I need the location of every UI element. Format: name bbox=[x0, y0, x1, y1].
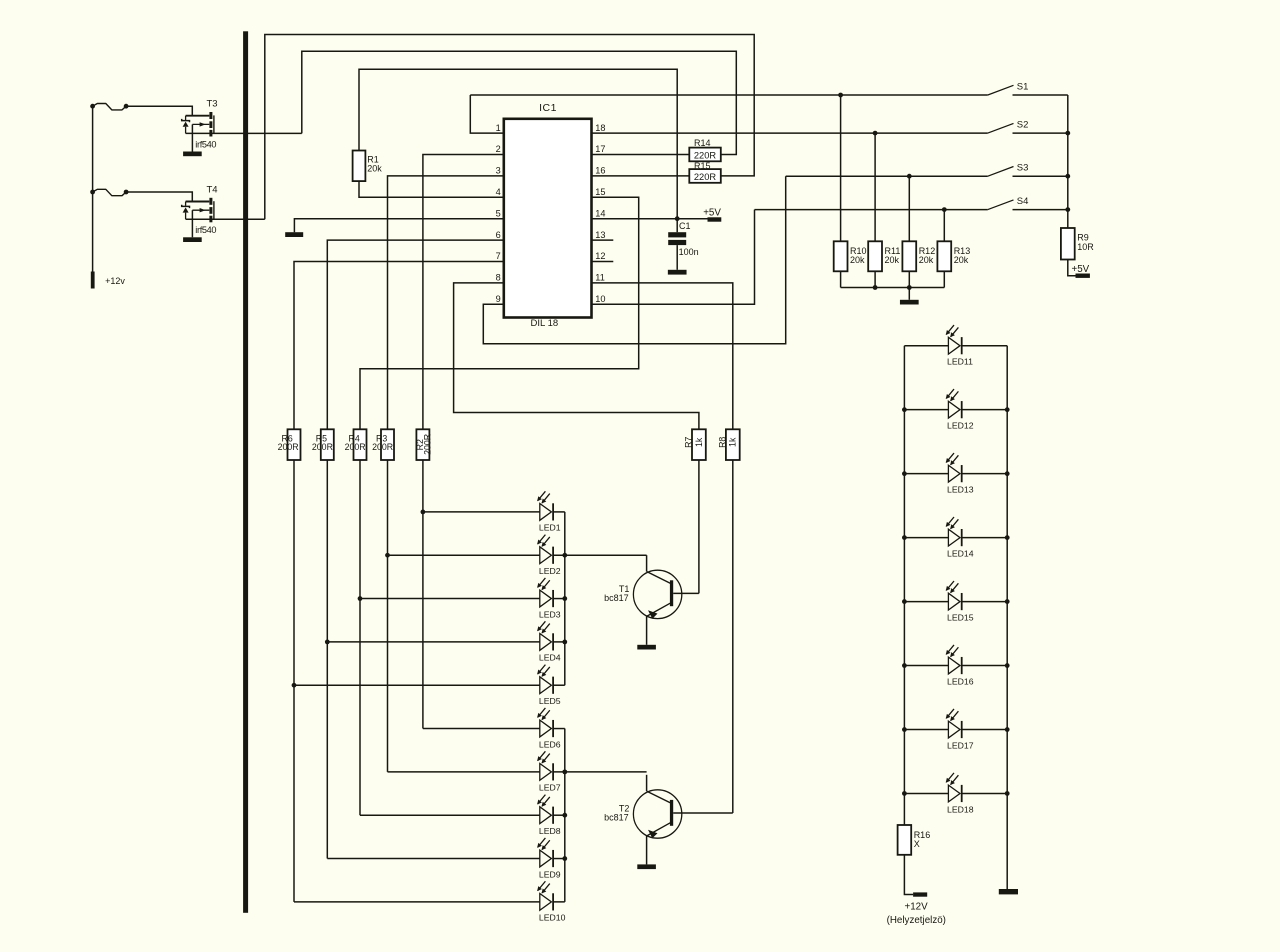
resistor R14 bbox=[689, 148, 721, 162]
svg-text:9: 9 bbox=[496, 294, 501, 304]
wire S4 to right rail bbox=[1013, 209, 1068, 211]
svg-text:IC1: IC1 bbox=[539, 102, 557, 114]
ground (T2 emitter) bbox=[637, 864, 656, 869]
junction (R13 tap on switch line) bbox=[942, 207, 947, 212]
svg-text:R15: R15 bbox=[694, 161, 711, 171]
junction (pin 14 / C1) bbox=[675, 216, 680, 221]
svg-text:7: 7 bbox=[496, 251, 501, 261]
ground (R10-R13) bbox=[900, 300, 919, 305]
wire T4 gate squiggle bbox=[93, 189, 127, 195]
junction (R11 ground rail) bbox=[873, 285, 878, 290]
svg-text:20k: 20k bbox=[954, 255, 969, 265]
svg-text:20k: 20k bbox=[919, 255, 934, 265]
resistor R5 bbox=[321, 429, 334, 460]
resistor R6 bbox=[288, 429, 301, 460]
LED LED11 bbox=[946, 325, 962, 354]
junction (S2 rail) bbox=[1065, 131, 1070, 136]
resistor R8 bbox=[726, 429, 740, 460]
wire LED6 cathode bbox=[553, 728, 565, 730]
resistor R11 bbox=[868, 241, 882, 271]
wire LED16 anode bbox=[904, 665, 948, 667]
svg-text:LED4: LED4 bbox=[539, 653, 561, 663]
wire pin 5 to ground bbox=[294, 219, 503, 233]
wire R1 top to +5V node bbox=[359, 69, 677, 218]
svg-text:12: 12 bbox=[595, 251, 605, 261]
wire T3 gate squiggle bbox=[93, 104, 127, 110]
svg-text:3: 3 bbox=[496, 166, 501, 176]
wire LED6-LED10 chain bbox=[564, 729, 566, 902]
svg-text:2: 2 bbox=[496, 144, 501, 154]
svg-text:DIL 18: DIL 18 bbox=[531, 318, 559, 329]
transistor T2 (bc817) bbox=[633, 790, 681, 839]
IC U1 (IC1 DIL 18) bbox=[504, 119, 592, 318]
wire LED11 cathode bbox=[962, 345, 1008, 347]
junction (R6 to LED5) bbox=[292, 683, 297, 688]
wire T2 base bbox=[673, 812, 733, 814]
LED LED7 bbox=[537, 751, 553, 780]
junction (R11 tap on switch line) bbox=[873, 131, 878, 136]
wire LED13 anode bbox=[904, 473, 948, 475]
wire pin 7 to R6 bbox=[294, 262, 504, 430]
junction (chain LED7) bbox=[562, 769, 567, 774]
resistor R12 bbox=[902, 241, 916, 271]
svg-text:LED1: LED1 bbox=[539, 523, 561, 533]
svg-text:bc817: bc817 bbox=[604, 593, 629, 603]
LED LED17 bbox=[946, 709, 962, 738]
transistor T4 (irf540) bbox=[182, 198, 214, 223]
wire T4 gate bbox=[126, 192, 192, 201]
LED LED6 bbox=[537, 708, 553, 737]
wire S4 line bbox=[755, 209, 988, 211]
wire T4 source to ground bbox=[191, 210, 193, 237]
svg-text:R7: R7 bbox=[683, 437, 693, 448]
junction (S3 rail) bbox=[1065, 174, 1070, 179]
wire LED2 cathode to T1 collector bbox=[553, 554, 647, 556]
svg-text:S2: S2 bbox=[1017, 119, 1029, 130]
wire R16 bottom to +12V bbox=[904, 855, 913, 895]
LED LED9 bbox=[537, 838, 553, 867]
wire LED1 cathode bbox=[553, 511, 565, 513]
svg-text:LED14: LED14 bbox=[947, 548, 974, 558]
wire T3 gate bbox=[126, 106, 192, 115]
junction (chain LED3) bbox=[562, 596, 567, 601]
resistor R3 bbox=[381, 429, 394, 460]
wire S2 line bbox=[987, 132, 989, 134]
wire pin 10 to S4 line bbox=[592, 210, 755, 305]
svg-text:200R: 200R bbox=[422, 434, 432, 455]
ground (C1) bbox=[668, 270, 687, 275]
wire LED5 cathode bbox=[553, 684, 565, 686]
svg-text:1: 1 bbox=[496, 123, 501, 133]
svg-text:LED8: LED8 bbox=[539, 826, 561, 836]
wire switch output rail bbox=[1067, 95, 1069, 228]
junction (left rail LED16) bbox=[902, 663, 907, 668]
ground (ladder right rail) bbox=[999, 889, 1018, 894]
switch S1 lever bbox=[988, 85, 1014, 95]
svg-text:200R: 200R bbox=[372, 442, 393, 452]
svg-text:LED15: LED15 bbox=[947, 612, 974, 622]
svg-text:220R: 220R bbox=[694, 150, 717, 160]
LED LED15 bbox=[946, 581, 962, 610]
svg-text:5: 5 bbox=[496, 208, 501, 218]
svg-text:15: 15 bbox=[595, 187, 605, 197]
resistor R9 bbox=[1061, 228, 1075, 260]
svg-text:1k: 1k bbox=[728, 437, 738, 447]
svg-text:200R: 200R bbox=[278, 442, 299, 452]
wire pin 9 to S3 line bbox=[483, 176, 785, 344]
wire LED9 cathode bbox=[553, 858, 565, 860]
svg-text:LED13: LED13 bbox=[947, 484, 974, 494]
wire R8 to T2 base bbox=[732, 460, 734, 813]
svg-text:+5V: +5V bbox=[1072, 264, 1090, 275]
ground (T3 source) bbox=[183, 152, 202, 157]
svg-text:11: 11 bbox=[595, 273, 605, 283]
svg-text:bc817: bc817 bbox=[604, 813, 629, 823]
LED LED18 bbox=[946, 773, 962, 802]
wire LED13 cathode bbox=[962, 473, 1008, 475]
connector +12v pin bbox=[91, 272, 95, 289]
wire pin 12 stub bbox=[592, 261, 614, 263]
junction (R5 to LED4) bbox=[325, 639, 330, 644]
resistor R13 bbox=[937, 241, 951, 271]
wire LED4 cathode bbox=[553, 641, 565, 643]
LED LED3 bbox=[537, 578, 553, 607]
svg-text:LED16: LED16 bbox=[947, 676, 974, 686]
junction (right rail LED17) bbox=[1005, 727, 1010, 732]
transistor T1 (bc817) bbox=[633, 570, 681, 619]
svg-text:8: 8 bbox=[496, 273, 501, 283]
junction (left rail LED15) bbox=[902, 599, 907, 604]
wire LED6 anode bbox=[423, 728, 540, 730]
svg-text:LED9: LED9 bbox=[539, 869, 561, 879]
wire LED12 anode bbox=[904, 409, 948, 411]
wire LED15 anode bbox=[904, 601, 948, 603]
wire T1 base bbox=[673, 592, 699, 594]
resistor R10 bbox=[834, 241, 848, 271]
resistor R16 bbox=[898, 825, 912, 855]
wire LED11 anode bbox=[904, 345, 948, 347]
wire pin 2 to R2 bbox=[423, 155, 504, 430]
LED LED2 bbox=[537, 535, 553, 564]
LED LED16 bbox=[946, 645, 962, 674]
svg-text:LED2: LED2 bbox=[539, 566, 561, 576]
wire LED15 cathode bbox=[962, 601, 1008, 603]
svg-text:T4: T4 bbox=[207, 184, 218, 195]
svg-text:1k: 1k bbox=[694, 437, 704, 447]
wire S3 to right rail bbox=[1013, 175, 1068, 177]
svg-text:13: 13 bbox=[595, 230, 605, 240]
wire pin 4 stub bbox=[503, 196, 505, 198]
wire LED12 cathode bbox=[962, 409, 1008, 411]
wire LED8 cathode bbox=[553, 814, 565, 816]
LED LED14 bbox=[946, 517, 962, 546]
wire pin 11 to R8 bbox=[592, 283, 733, 429]
transistor T3 (irf540) bbox=[182, 112, 214, 137]
junction (R12 ground rail) bbox=[907, 285, 912, 290]
wire R2 column to LED6 bbox=[422, 460, 424, 729]
wire pin 3 to R3 bbox=[388, 176, 504, 429]
wire T1 emitter bbox=[646, 616, 648, 644]
wire LED3 cathode bbox=[553, 598, 565, 600]
capacitor C1 bbox=[668, 219, 686, 270]
ground (T1 emitter) bbox=[637, 645, 656, 650]
wire LED5 anode bbox=[294, 684, 540, 686]
svg-text:+12v: +12v bbox=[105, 276, 125, 286]
power +5V (pin 14) bbox=[708, 217, 722, 221]
wire S1 to right rail bbox=[1013, 94, 1068, 96]
junction (left rail LED12) bbox=[902, 407, 907, 412]
wire pin 16 to R15 bbox=[592, 175, 690, 177]
svg-text:10R: 10R bbox=[1077, 242, 1094, 252]
junction (R4 to LED3) bbox=[358, 596, 363, 601]
svg-text:200R: 200R bbox=[312, 442, 333, 452]
wire R10 top bbox=[840, 95, 842, 241]
junction (T4 gate tap) bbox=[90, 190, 95, 195]
svg-text:irf540: irf540 bbox=[195, 139, 216, 149]
svg-text:16: 16 bbox=[595, 166, 605, 176]
wire T4 drain bbox=[186, 218, 265, 220]
wire pin 6 to R5 bbox=[327, 240, 504, 429]
ground (T4 source) bbox=[183, 237, 202, 242]
junction (R10 tap on switch line) bbox=[838, 93, 843, 98]
wire LED1-LED5 chain bbox=[564, 512, 566, 685]
wire T1 collector bbox=[646, 555, 648, 571]
svg-text:LED11: LED11 bbox=[947, 357, 973, 367]
wire T4 drain to R15 (via top) bbox=[265, 35, 754, 220]
svg-text:R14: R14 bbox=[694, 138, 711, 148]
wire pin 8 to R7 bbox=[454, 283, 699, 429]
switch S4 lever bbox=[988, 200, 1014, 210]
wire LED7 cathode to T2 collector bbox=[553, 771, 647, 773]
LED LED10 bbox=[537, 881, 553, 910]
svg-text:4: 4 bbox=[496, 187, 501, 197]
wire LED10 anode bbox=[294, 901, 540, 903]
junction (R2 to LED1) bbox=[421, 510, 426, 515]
svg-text:LED10: LED10 bbox=[539, 913, 566, 923]
wire R11 top bbox=[874, 133, 876, 241]
svg-text:+12V: +12V bbox=[905, 902, 929, 913]
junction (left rail LED17) bbox=[902, 727, 907, 732]
wire R9 bottom to +5V bbox=[1068, 260, 1076, 276]
junction (right rail LED14) bbox=[1005, 535, 1010, 540]
svg-text:10: 10 bbox=[595, 294, 605, 304]
LED LED1 bbox=[537, 491, 553, 520]
wire ground stub (R10-R13) bbox=[908, 288, 910, 300]
resistor R1 bbox=[353, 151, 366, 182]
svg-text:+5V: +5V bbox=[703, 208, 721, 219]
wire T3 drain to R14 (via top) bbox=[302, 51, 737, 154]
bus bar bbox=[243, 31, 248, 913]
junction (right rail LED16) bbox=[1005, 663, 1010, 668]
wire T2 emitter bbox=[646, 836, 648, 864]
wire R11 bottom bbox=[874, 271, 876, 287]
junction (left rail LED14) bbox=[902, 535, 907, 540]
wire pin 1 to S1 line bbox=[470, 95, 504, 133]
junction (right rail LED15) bbox=[1005, 599, 1010, 604]
wire LED18 anode bbox=[904, 792, 948, 794]
svg-text:LED5: LED5 bbox=[539, 696, 561, 706]
junction (chain LED4) bbox=[562, 639, 567, 644]
LED LED8 bbox=[537, 795, 553, 824]
svg-text:20k: 20k bbox=[850, 255, 865, 265]
wire LED1 anode bbox=[423, 511, 540, 513]
wire R7 to T1 base bbox=[698, 460, 700, 593]
wire ladder right rail bbox=[1006, 346, 1008, 889]
svg-text:220R: 220R bbox=[694, 172, 717, 182]
wire ladder left rail bbox=[903, 346, 905, 825]
wire T3 source to ground bbox=[191, 124, 193, 151]
resistor R4 bbox=[354, 429, 367, 460]
wire pin 14 to +5V bbox=[592, 218, 708, 220]
svg-text:LED7: LED7 bbox=[539, 783, 561, 793]
resistor R15 bbox=[689, 169, 721, 183]
ground (pin 5) bbox=[285, 232, 303, 237]
junction (T4 gate squiggle end) bbox=[124, 190, 129, 195]
wire R13 top bbox=[943, 210, 945, 242]
wire LED9 anode bbox=[327, 858, 540, 860]
svg-text:LED3: LED3 bbox=[539, 609, 561, 619]
wire R10-R13 ground rail bbox=[841, 287, 945, 289]
junction (left rail LED18) bbox=[902, 791, 907, 796]
wire +12v rail bbox=[92, 106, 94, 271]
wire LED7 anode bbox=[388, 771, 540, 773]
wire R6 column to LED10 bbox=[293, 460, 295, 902]
svg-text:T3: T3 bbox=[207, 99, 218, 110]
power +12V (R16) bbox=[913, 892, 927, 896]
svg-text:20k: 20k bbox=[367, 164, 382, 174]
wire R12 top bbox=[908, 176, 910, 241]
svg-text:14: 14 bbox=[595, 208, 605, 218]
wire T3 drain bbox=[186, 132, 302, 134]
junction (right rail LED18) bbox=[1005, 791, 1010, 796]
wire S2 to right rail bbox=[1013, 132, 1068, 134]
wire LED10 cathode bbox=[553, 901, 565, 903]
junction (T3 gate squiggle end) bbox=[124, 104, 129, 109]
wire LED14 anode bbox=[904, 537, 948, 539]
svg-text:100n: 100n bbox=[679, 247, 699, 257]
wire pin 13 stub bbox=[592, 239, 614, 241]
switch S3 lever bbox=[988, 167, 1014, 177]
svg-text:20k: 20k bbox=[885, 255, 900, 265]
switch S2 lever bbox=[988, 123, 1014, 133]
svg-text:X: X bbox=[914, 839, 920, 849]
wire S1 line bbox=[470, 94, 988, 96]
wire T2 collector bbox=[646, 775, 648, 791]
power +5V (R9) bbox=[1076, 274, 1090, 278]
junction (T3 gate tap) bbox=[90, 104, 95, 109]
svg-text:LED17: LED17 bbox=[947, 740, 974, 750]
wire LED17 cathode bbox=[962, 729, 1008, 731]
resistor R7 bbox=[692, 429, 706, 460]
svg-text:S3: S3 bbox=[1017, 163, 1029, 174]
svg-text:S4: S4 bbox=[1017, 196, 1029, 207]
wire LED8 anode bbox=[360, 814, 540, 816]
wire LED16 cathode bbox=[962, 665, 1008, 667]
LED LED5 bbox=[537, 665, 553, 694]
LED LED12 bbox=[946, 389, 962, 418]
wire LED2 anode bbox=[388, 554, 540, 556]
wire R1 bottom to pin 4 bbox=[359, 181, 504, 197]
svg-text:6: 6 bbox=[496, 230, 501, 240]
junction (right rail LED12) bbox=[1005, 407, 1010, 412]
svg-text:irf540: irf540 bbox=[195, 225, 216, 235]
wire R12 bottom bbox=[908, 271, 910, 287]
junction (chain LED8) bbox=[562, 813, 567, 818]
svg-text:LED12: LED12 bbox=[947, 420, 974, 430]
svg-text:200R: 200R bbox=[345, 442, 366, 452]
svg-text:17: 17 bbox=[595, 144, 605, 154]
wire R9 top bbox=[1067, 227, 1069, 229]
junction (left rail LED13) bbox=[902, 471, 907, 476]
wire LED18 cathode bbox=[962, 792, 1008, 794]
wire R5 column to LED9 bbox=[326, 460, 328, 859]
LED LED4 bbox=[537, 621, 553, 650]
wire R3 column to LED7 bbox=[387, 460, 389, 772]
wire LED4 anode bbox=[327, 641, 540, 643]
wire S3 line bbox=[786, 175, 988, 177]
junction (right rail LED13) bbox=[1005, 471, 1010, 476]
svg-text:LED18: LED18 bbox=[947, 804, 974, 814]
junction (chain LED9) bbox=[562, 856, 567, 861]
wire LED17 anode bbox=[904, 729, 948, 731]
svg-text:18: 18 bbox=[595, 123, 605, 133]
svg-text:S1: S1 bbox=[1017, 81, 1029, 92]
LED LED13 bbox=[946, 453, 962, 482]
junction (chain LED2) bbox=[562, 553, 567, 558]
junction (R12 tap on switch line) bbox=[907, 174, 912, 179]
junction (S4 rail) bbox=[1065, 207, 1070, 212]
wire LED14 cathode bbox=[962, 537, 1008, 539]
svg-text:(Helyzetjelzö): (Helyzetjelzö) bbox=[887, 915, 946, 926]
svg-text:LED6: LED6 bbox=[539, 739, 561, 749]
wire R13 bottom bbox=[943, 271, 945, 287]
svg-text:C1: C1 bbox=[679, 221, 691, 231]
wire R4 column to LED8 bbox=[359, 460, 361, 815]
wire R10 bottom bbox=[840, 271, 842, 287]
wire pin 18 to S2 bbox=[592, 132, 988, 134]
junction (R3 to LED2) bbox=[385, 553, 390, 558]
wire pin 17 to R14 bbox=[592, 154, 690, 156]
resistor R2 bbox=[416, 429, 429, 460]
wire pin 15 to R4 bbox=[360, 197, 639, 429]
wire LED3 anode bbox=[360, 598, 540, 600]
svg-text:R8: R8 bbox=[717, 437, 727, 448]
